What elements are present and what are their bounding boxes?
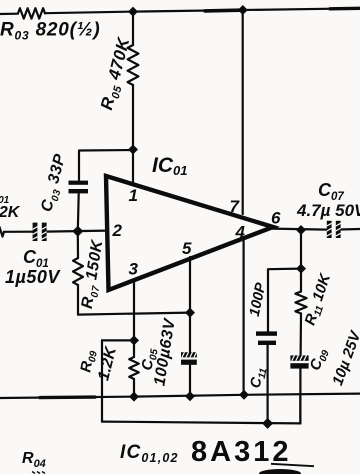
wire C11 branch (feedback node left and down) bbox=[268, 269, 301, 332]
svg-text:3: 3 bbox=[129, 260, 139, 279]
capacitor C01 plates (electrolytic, striped) bbox=[33, 223, 47, 241]
resistor R07 150K bbox=[77, 231, 79, 258]
svg-text:22K: 22K bbox=[0, 204, 21, 221]
underline under 8A312 bbox=[271, 464, 314, 466]
node junction R05 / C03 branch bbox=[128, 145, 138, 155]
resistor R11 10K bbox=[300, 269, 302, 292]
wire C05 leads bbox=[189, 313, 191, 353]
wire input to C01 bbox=[4, 231, 33, 233]
wire lower rail bbox=[102, 422, 300, 424]
svg-text:5: 5 bbox=[182, 239, 192, 258]
capacitor C05 plates (electrolytic, striped) bbox=[181, 352, 197, 365]
node junction top rail / pin7 bbox=[238, 5, 248, 15]
wire feedback vertical (output node down) bbox=[300, 230, 302, 269]
node junction C05 bottom bbox=[185, 391, 195, 401]
op-amp U IC01 triangle bbox=[106, 176, 273, 290]
wire C03 to input node bbox=[77, 194, 80, 231]
resistor R03 zigzag bbox=[18, 8, 45, 18]
wire C09 bottom lead bbox=[299, 368, 301, 423]
resistor R01 (partial at left edge) bbox=[0, 227, 4, 237]
wire bottom rail thick blotch bbox=[40, 395, 95, 399]
wire pin 1 (R05 node down to op-amp top edge) bbox=[132, 150, 134, 186]
node junction feedback / C11 / R11 bbox=[296, 264, 306, 274]
wire top supply rail (R03 to right edge) bbox=[45, 8, 360, 13]
wire bottom rail bbox=[0, 394, 360, 398]
resistor R05 470K vertical bbox=[132, 12, 134, 45]
wire C03 branch (node to cap) bbox=[79, 150, 133, 180]
node junction pin4 / bottom rail bbox=[239, 390, 249, 400]
wire pin 4 (op-amp bottom edge down to bottom rail) bbox=[243, 239, 245, 395]
wire mid rail (R07 bottom to C05 node) bbox=[78, 313, 190, 315]
node junction input (pin2/C03/R07) bbox=[72, 226, 83, 237]
resistor R09 1.2K bbox=[133, 340, 135, 357]
svg-text:4: 4 bbox=[235, 223, 246, 242]
svg-text:1: 1 bbox=[129, 186, 138, 205]
capacitor C11 100P plates bbox=[256, 331, 277, 345]
node junction C05 top bbox=[185, 308, 195, 318]
resistor R04 zigzag top specks (cut at bottom) bbox=[32, 472, 45, 474]
node junction C11 / lower rail bbox=[262, 418, 273, 429]
wire bypass vertical bbox=[101, 340, 103, 421]
svg-text:2: 2 bbox=[112, 221, 123, 240]
wire C11 bottom lead bbox=[267, 345, 269, 424]
wire lower rail turn-up bbox=[299, 396, 301, 423]
svg-text:1µ50V: 1µ50V bbox=[5, 267, 61, 287]
wire top supply rail (left segment into R03) bbox=[0, 13, 18, 16]
svg-text:4.7µ 50V: 4.7µ 50V bbox=[296, 201, 360, 220]
wire pin 3 (op-amp bottom edge down) bbox=[133, 282, 135, 341]
wire top rail thick blotch left of pin7 node bbox=[205, 8, 240, 12]
svg-text:7: 7 bbox=[230, 197, 241, 216]
capacitor C07 plates (electrolytic, striped) bbox=[327, 221, 341, 238]
node junction top rail / R05 bbox=[128, 7, 138, 17]
node junction output / feedback bbox=[296, 225, 306, 235]
wire C01 to pin 2 bbox=[46, 231, 107, 232]
svg-text:6: 6 bbox=[271, 209, 281, 228]
wire output (pin 6 to C07) bbox=[272, 229, 327, 230]
ink blob under 8A312 bbox=[259, 469, 301, 474]
wire stub (pin3 node to bypass) bbox=[102, 339, 134, 341]
wire pin 7 (top rail down to op-amp top edge) bbox=[242, 10, 244, 214]
node junction pin3 / R09 top bbox=[129, 335, 139, 345]
wire top rail thick blotch right end bbox=[330, 7, 360, 11]
wire pin 5 (op-amp bottom edge down to C05 node) bbox=[189, 257, 191, 313]
wire output (C07 to right edge) bbox=[340, 228, 360, 231]
capacitor C09 plates (electrolytic, striped) bbox=[290, 355, 308, 368]
capacitor C03 33P plates bbox=[69, 181, 89, 194]
node junction R09 bottom bbox=[129, 392, 139, 402]
